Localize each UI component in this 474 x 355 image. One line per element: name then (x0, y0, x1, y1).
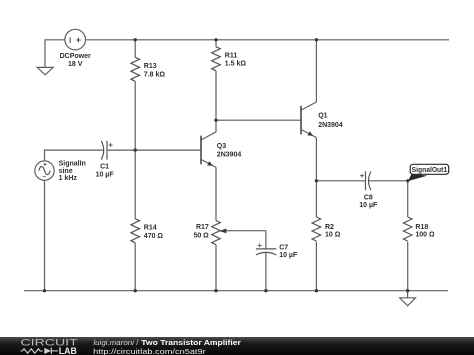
wire SignalIn top to C1 (45, 150, 104, 161)
svg-text:sine: sine (59, 168, 73, 175)
svg-text:C8: C8 (364, 195, 373, 202)
wire node A to Q3 base (135, 149, 201, 151)
svg-text:10 Ω: 10 Ω (325, 231, 341, 238)
wire R17 wiper down to C7 (265, 231, 267, 249)
label C8 10 uF (359, 195, 378, 210)
resistor R18 (403, 217, 412, 241)
svg-text:7.8 kΩ: 7.8 kΩ (144, 71, 166, 78)
resistor R2 (312, 217, 321, 241)
svg-text:Q1: Q1 (318, 112, 327, 119)
svg-text:470 Ω: 470 Ω (144, 233, 164, 240)
wire top rail V+ (86, 39, 450, 41)
wire output node to C8 (316, 180, 365, 182)
wire R17 bottom to rail (215, 245, 217, 291)
wire R13 bottom to node then to R14 (134, 81, 136, 218)
label C7 10 uF (279, 245, 298, 259)
resistor R14 (131, 219, 140, 243)
svg-text:18 V: 18 V (68, 61, 83, 68)
svg-text:R13: R13 (144, 63, 157, 70)
junction top rail at R13 (134, 38, 137, 41)
label Q3 2N3904 (217, 143, 242, 158)
wire R18 top lead (407, 181, 409, 217)
junction rail at R18/GND2 (406, 289, 409, 292)
wire C7 bottom to rail (265, 253, 267, 291)
wire R18 bottom to rail (407, 242, 409, 291)
svg-text:C7: C7 (279, 245, 288, 252)
junction rail at SignalIn (43, 289, 46, 292)
label C1 10 uF (96, 163, 115, 178)
logo diode (44, 348, 58, 354)
svg-text:R18: R18 (415, 224, 428, 231)
junction Q1 emitter / R2 / C8 (315, 179, 318, 182)
resistor R11 (212, 47, 221, 71)
ground GND1 (37, 67, 53, 74)
label SignalIn sine 1 kHz (59, 161, 86, 183)
svg-text:1 kHz: 1 kHz (59, 175, 78, 182)
svg-text:R17: R17 (196, 224, 209, 231)
junction rail at R2 (315, 289, 318, 292)
wire bottom rail (24, 290, 448, 292)
svg-text:R14: R14 (144, 224, 157, 231)
junction rail at R14 (134, 289, 137, 292)
ground GND2 (400, 291, 416, 306)
svg-text:Q3: Q3 (217, 143, 226, 150)
wire R2 top lead (315, 181, 317, 217)
svg-text:10 µF: 10 µF (96, 171, 115, 178)
capacitor C7 (256, 243, 276, 255)
label R13 7.8 kOhm (144, 63, 166, 78)
logo resistor zigzag (21, 349, 43, 353)
wire DCPower left to ground (45, 40, 65, 68)
junction rail at R17 (214, 289, 217, 292)
label DCPower 18 V (60, 53, 91, 68)
svg-text:2N3904: 2N3904 (217, 152, 242, 159)
label R2 10 Ohm (325, 224, 341, 239)
junction rail at C7 (264, 289, 267, 292)
junction top rail at R11 (214, 38, 217, 41)
svg-text:1.5 kΩ: 1.5 kΩ (225, 61, 247, 68)
capacitor C8 (360, 171, 371, 190)
junction node A C1/R13/R14/Q3 base (134, 148, 137, 151)
svg-text:10 µF: 10 µF (359, 202, 378, 209)
svg-text:100 Ω: 100 Ω (415, 232, 435, 239)
label R18 100 Ohm (415, 224, 435, 239)
junction top rail at Q1 collector (315, 38, 318, 41)
wire C8 to SignalOut node (369, 180, 408, 182)
svg-text:R11: R11 (225, 53, 238, 60)
wire R2 bottom to rail (315, 242, 317, 291)
capacitor C1 (101, 141, 112, 160)
wire R11 bottom to node B (215, 71, 217, 120)
label R11 1.5 kOhm (225, 53, 247, 68)
svg-text:SignalOut1: SignalOut1 (412, 167, 448, 174)
transistor Q1 2N3904 (301, 40, 316, 138)
svg-text:SignalIn: SignalIn (59, 161, 86, 168)
label R14 470 Ohm (144, 224, 164, 240)
voltage source V2 SignalIn (35, 161, 54, 180)
svg-text:http://circuitlab.com/cn5at9r: http://circuitlab.com/cn5at9r (93, 347, 206, 355)
wire Q3 emitter to R17 (215, 167, 217, 220)
label R17 50 Ohm (193, 224, 209, 239)
node flag SignalOut1 (408, 164, 449, 181)
svg-text:2N3904: 2N3904 (318, 122, 343, 129)
resistor R17 rheostat (212, 221, 266, 245)
svg-text:10 µF: 10 µF (279, 252, 298, 259)
transistor Q3 2N3904 (201, 120, 216, 167)
svg-text:R2: R2 (325, 224, 334, 231)
svg-text:50 Ω: 50 Ω (193, 232, 209, 239)
resistor R13 (131, 57, 140, 81)
wire R11 column top (215, 40, 217, 47)
wire Q1 emitter to output node (315, 138, 317, 181)
wire R13 column top (134, 40, 136, 58)
junction SignalOut node / R18 (406, 179, 409, 182)
svg-text:C1: C1 (100, 163, 109, 170)
label Q1 2N3904 (318, 112, 343, 128)
svg-text:DCPower: DCPower (60, 53, 91, 60)
svg-text:LAB: LAB (59, 346, 77, 355)
wire node B to Q1 base (216, 119, 301, 121)
wire R14 bottom to rail (134, 243, 136, 291)
voltage source V1 DCPower (65, 29, 86, 50)
junction node B R11/Q3 collector/Q1 base (214, 119, 217, 122)
wire SignalIn bottom to rail (44, 180, 46, 290)
wire C1 to node A (107, 149, 135, 151)
